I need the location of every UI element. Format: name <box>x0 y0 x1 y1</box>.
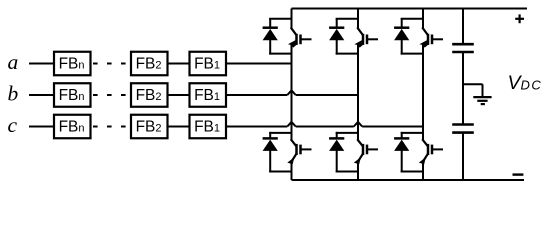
wire hop phase c over leg 2 <box>354 122 362 127</box>
wire phase c to leg 3 <box>226 126 287 128</box>
diode D1 <box>269 18 271 27</box>
capacitor C1 <box>452 43 474 46</box>
wire FB2-FB1 phase c <box>168 126 190 128</box>
svg-text:FB2: FB2 <box>136 55 162 72</box>
svg-text:FB1: FB1 <box>194 118 220 135</box>
svg-text:FB2: FB2 <box>136 87 162 104</box>
transistor Q4 (IGBT) <box>357 139 363 146</box>
wire diode D2 top branch <box>269 132 291 134</box>
wire phase b input lead <box>29 94 54 96</box>
svg-text:a: a <box>8 50 19 74</box>
block FBn phase b <box>54 83 91 107</box>
block FB1 phase a <box>190 52 227 76</box>
transistor Q3 (IGBT) <box>357 27 363 35</box>
svg-text:b: b <box>8 81 19 105</box>
wire diode D2 bottom branch <box>269 171 291 173</box>
wire DC link column top <box>462 9 464 44</box>
svg-text:FB2: FB2 <box>136 118 162 135</box>
block FBn phase a <box>54 52 91 76</box>
diode D3 <box>336 18 338 27</box>
wire diode D4 top branch <box>336 132 358 134</box>
svg-text:FB1: FB1 <box>194 87 220 104</box>
wire diode D1 bottom branch <box>269 53 291 55</box>
wire leg 1 midpoint column <box>291 44 293 140</box>
wire hop phase c over leg 1 <box>287 122 295 127</box>
wire phase a to leg 1 <box>226 63 292 65</box>
wire diode D3 top branch <box>336 18 358 20</box>
block FB1 phase c <box>190 115 227 139</box>
wire leg 1 emitter to DC- rail <box>291 160 293 180</box>
diode D2 <box>269 132 271 138</box>
wire phase a input lead <box>29 63 54 65</box>
wire DC link column middle <box>462 53 464 124</box>
svg-text:FBn: FBn <box>59 118 85 135</box>
wire diode D6 bottom branch <box>401 171 423 173</box>
svg-text:FBn: FBn <box>59 87 85 104</box>
node DC+ terminal (+) <box>515 18 524 20</box>
wire diode D3 bottom branch <box>336 53 358 55</box>
wire phase c input lead <box>29 126 54 128</box>
transistor Q2 (IGBT) <box>291 139 297 146</box>
wire dashed link FBn-FB2 phase b <box>93 94 98 96</box>
block FB2 phase a <box>131 52 168 76</box>
wire leg 2 emitter to DC- rail <box>357 160 359 180</box>
svg-text:c: c <box>8 113 18 137</box>
svg-text:DC: DC <box>521 78 543 93</box>
wire leg 2 collector riser <box>357 9 359 29</box>
wire ground stub <box>462 83 483 85</box>
wire DC+ top rail <box>292 8 528 10</box>
wire diode D5 top branch <box>401 18 423 20</box>
wire FB2-FB1 phase b <box>168 94 190 96</box>
wire leg 3 midpoint column <box>422 44 424 140</box>
wire hop phase b over leg 1 <box>287 90 295 95</box>
block FBn phase c <box>54 115 91 139</box>
transistor Q1 (IGBT) <box>291 27 297 35</box>
block FB2 phase b <box>131 83 168 107</box>
transistor Q6 (IGBT) <box>422 139 428 146</box>
diode D5 <box>401 18 403 27</box>
wire diode D4 bottom branch <box>336 171 358 173</box>
wire diode D5 bottom branch <box>401 53 423 55</box>
block FB2 phase c <box>131 115 168 139</box>
node DC- terminal (-) <box>513 173 524 175</box>
wire leg 2 midpoint column <box>357 44 359 140</box>
wire dashed link FBn-FB2 phase a <box>93 63 98 65</box>
diode D6 <box>401 132 403 138</box>
svg-text:FBn: FBn <box>59 55 85 72</box>
wire leg 3 collector riser <box>422 9 424 29</box>
block FB1 phase b <box>190 83 227 107</box>
transistor Q5 (IGBT) <box>422 27 428 35</box>
wire FB2-FB1 phase a <box>168 63 190 65</box>
capacitor C2 <box>452 123 474 126</box>
wire leg 3 emitter to DC- rail <box>422 160 424 180</box>
ground <box>473 96 491 98</box>
wire leg 1 collector riser <box>291 9 293 29</box>
wire dashed link FBn-FB2 phase c <box>93 126 98 128</box>
wire DC- bottom rail <box>292 179 525 181</box>
wire phase b to leg 2 <box>226 94 287 96</box>
wire diode D6 top branch <box>401 132 423 134</box>
diode D4 <box>336 132 338 138</box>
wire diode D1 top branch <box>269 18 291 20</box>
wire DC link column bottom <box>462 134 464 181</box>
svg-text:FB1: FB1 <box>194 55 220 72</box>
